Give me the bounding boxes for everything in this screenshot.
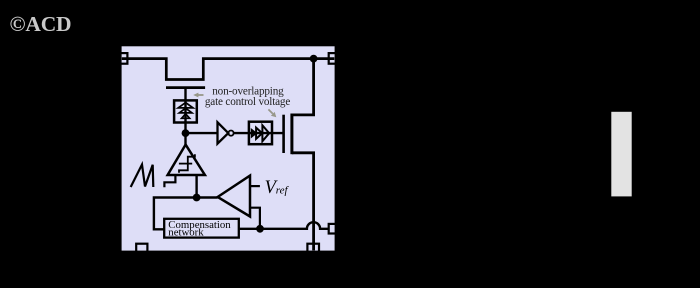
inverter U4 bubble xyxy=(228,131,233,136)
wire: node B to error amp output apex xyxy=(197,196,218,198)
op-amp U3 (error amplifier) xyxy=(218,176,250,217)
terminal pin top-left xyxy=(116,53,127,64)
transistor Q2 gate bar xyxy=(282,115,285,153)
terminal pin right-lower xyxy=(329,224,340,234)
callout arrow to Q2 gate wire xyxy=(268,109,272,113)
driver U1 triangle medium xyxy=(179,108,192,113)
wire: node A to inverter input xyxy=(186,132,218,134)
svg-text:©ACD: ©ACD xyxy=(10,12,72,36)
inverter U4 xyxy=(218,122,229,143)
wire: top rail with series pass-FET dip xyxy=(122,59,334,80)
wire: Q2 source lead down to bottom pin xyxy=(292,153,314,251)
wire: compensation output right with hop over vertical wire xyxy=(239,222,329,229)
node C junction dot xyxy=(256,225,264,233)
wire: comparator plus input down to node B xyxy=(195,175,197,198)
wire: node B left and down to compensation box xyxy=(154,198,197,230)
driver U5 triangle large xyxy=(262,125,269,141)
transistor Q2 channel bar xyxy=(290,114,293,155)
node D junction dot on rail xyxy=(310,55,318,63)
node A junction dot xyxy=(182,129,190,137)
svg-text:network: network xyxy=(168,227,204,239)
comparator U2 hysteresis glyph xyxy=(179,154,195,173)
driver U5 triangle medium xyxy=(256,128,262,139)
terminal pin top-right xyxy=(329,53,340,64)
compensation network box xyxy=(164,219,239,238)
wire: comparator minus input lead xyxy=(164,175,175,187)
IC body (shaded box) xyxy=(122,46,335,250)
driver U1 triangle small xyxy=(182,114,190,119)
transistor Q1 gate bar xyxy=(166,86,205,89)
sawtooth waveform glyph xyxy=(131,165,154,188)
node B junction dot xyxy=(193,194,201,202)
driver U5 triangle small xyxy=(252,130,256,136)
wire: Vref input lead xyxy=(250,185,260,187)
terminal pin bottom-right xyxy=(307,244,319,255)
terminal pin bottom-left xyxy=(136,244,147,255)
comparator U2 hysteresis crossbar xyxy=(179,163,192,165)
svg-text:gate control voltage: gate control voltage xyxy=(205,96,290,108)
svg-text:ref: ref xyxy=(276,185,290,197)
wire: Q1 gate lead down through driver to node A xyxy=(184,88,186,145)
callout arrow to Q1 gate xyxy=(197,94,204,96)
wire: Q2 drain lead up to rail xyxy=(292,59,314,115)
driver U1 box (gate driver, up-facing) xyxy=(174,100,197,122)
wire: inverter output to driver U5 to Q2 gate xyxy=(234,132,284,134)
driver U5 box (gate driver, right-facing) xyxy=(249,122,272,145)
comparator U2 triangle xyxy=(168,145,205,175)
output capacitor plate (light bar) xyxy=(611,112,631,197)
wire: error amp lower input to node C xyxy=(250,208,260,229)
driver U1 triangle large xyxy=(178,103,193,108)
